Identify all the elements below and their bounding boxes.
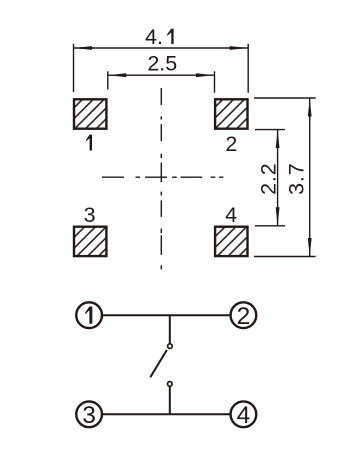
terminal 1 circle (76, 302, 102, 328)
terminal 4 circle (231, 401, 257, 427)
dimension line 2.2 (277, 130, 279, 226)
svg-text:2: 2 (225, 132, 237, 156)
svg-text:2: 2 (237, 303, 251, 330)
svg-text:2.5: 2.5 (147, 51, 177, 75)
upper contact circle (168, 344, 173, 349)
terminal 3 circle (76, 401, 102, 427)
dimension line 4.1 (74, 47, 249, 49)
extension lines for 4.1 dimension (74, 44, 249, 93)
pad 1 (hatched square, top-left) (74, 99, 106, 128)
extension lines right side (254, 98, 316, 257)
pad 2 (hatched square, top-right) (215, 99, 247, 128)
svg-text:4: 4 (237, 402, 251, 429)
svg-text:3: 3 (82, 402, 96, 429)
extension lines for 2.5 dimension (108, 71, 215, 92)
vertical centerline (dash-dot) (160, 88, 162, 269)
wire stub from lower contact (169, 387, 171, 415)
wire top (terminal 1 to terminal 2) (103, 314, 230, 316)
svg-text:4: 4 (225, 203, 237, 227)
pad 1 label (86, 135, 92, 151)
wire bottom (terminal 3 to terminal 4) (103, 413, 230, 415)
dimension line 2.5 (108, 74, 215, 76)
switch lever (open) (150, 350, 167, 377)
dimension line 3.7 (309, 98, 311, 257)
svg-text:4.: 4. (145, 25, 163, 49)
wire stub to upper contact (169, 315, 171, 343)
svg-text:3.7: 3.7 (284, 163, 308, 195)
horizontal centerline (dash-dot) (102, 176, 223, 178)
pad 4 (hatched square, bottom-right) (215, 227, 247, 256)
pad 3 (hatched square, bottom-left) (74, 227, 106, 256)
lower contact circle (168, 382, 173, 387)
terminal 2 circle (231, 302, 257, 328)
svg-text:3: 3 (84, 203, 96, 227)
svg-text:2.2: 2.2 (256, 163, 280, 195)
